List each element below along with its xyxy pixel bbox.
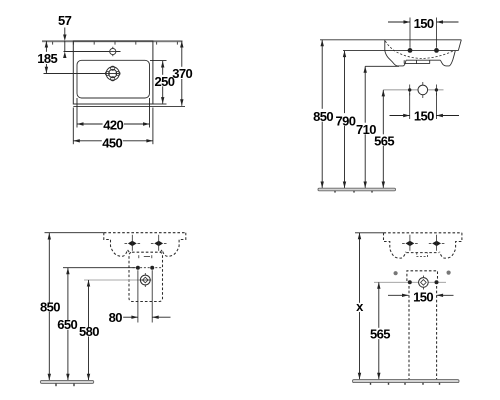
- svg-text:420: 420: [103, 118, 123, 133]
- svg-text:850: 850: [40, 299, 60, 314]
- basin underside silhouette right: [440, 51, 455, 66]
- dimension 250: [150, 59, 167, 61]
- svg-text:57: 57: [58, 13, 72, 28]
- svg-text:790: 790: [335, 113, 355, 128]
- overflow marks inside box: [138, 255, 140, 258]
- dimension 650: [67, 268, 69, 381]
- wall bolt left (rear): [128, 241, 137, 246]
- wall bolt left (pedestal view): [406, 241, 415, 246]
- floor line (front view): [318, 188, 396, 191]
- pedestal sides (dashed): [408, 286, 410, 379]
- silhouette right (pedestal view, dashed): [440, 233, 462, 258]
- dimension 80: [123, 316, 138, 318]
- fixing hole left (pedestal view): [408, 280, 412, 284]
- 650 extension line: [63, 267, 136, 269]
- floor line (pedestal view): [353, 380, 460, 383]
- dimension 850 (front): [321, 40, 323, 188]
- screw anchor left: [394, 271, 398, 275]
- basin right edge (front view): [458, 40, 461, 51]
- rear silhouette left (dashed): [104, 233, 130, 257]
- dimension 450: [72, 108, 74, 145]
- floor hatch ticks (pedestal view): [371, 383, 440, 385]
- svg-text:x: x: [356, 299, 364, 314]
- extension lines for 80 dim: [137, 270, 139, 322]
- dimension 565 (pedestal view): [378, 282, 380, 379]
- svg-text:580: 580: [79, 324, 99, 339]
- dimension 370: [153, 103, 167, 105]
- svg-text:150: 150: [414, 109, 434, 124]
- fixing screw left (front): [409, 85, 411, 96]
- rear silhouette right (dashed): [160, 233, 186, 257]
- drain centre line (pedestal view): [374, 281, 446, 283]
- fixing hole dashed centreline (rear): [133, 267, 163, 269]
- dimension x: [359, 233, 361, 379]
- mounting hole right (front): [434, 48, 439, 53]
- dimension 420: [76, 98, 78, 128]
- floor hatch ticks (rear view): [56, 383, 74, 386]
- basin top edge (pedestal view, dashed): [355, 232, 384, 234]
- screw anchor right: [447, 271, 451, 275]
- tap hole symbol (plan): [44, 73, 107, 75]
- svg-text:370: 370: [172, 66, 192, 81]
- tap hole centre line: [383, 89, 443, 91]
- basin outer outline (plan): [73, 41, 153, 104]
- hidden bowl edge (dashed): [385, 41, 453, 58]
- dimension 850 (rear): [48, 233, 50, 380]
- pedestal top box (dashed): [407, 271, 438, 281]
- basin front edge line: [73, 105, 185, 107]
- extension lines to top 150 dim: [409, 18, 411, 48]
- rim top line (front view): [320, 39, 461, 41]
- tap hole symbol (front): [422, 82, 424, 98]
- fixing hole symbol (plan): [64, 51, 121, 53]
- svg-text:850: 850: [313, 109, 333, 124]
- dimension 790: [344, 51, 346, 188]
- wall bolt right (pedestal view): [432, 241, 441, 246]
- wall hatch ticks: [53, 42, 178, 45]
- svg-text:565: 565: [370, 327, 390, 342]
- dimension 710: [364, 66, 366, 188]
- svg-text:185: 185: [37, 51, 57, 66]
- basin top edge (rear, dashed): [45, 232, 104, 234]
- dimension 185: [45, 41, 47, 73]
- svg-text:150: 150: [413, 289, 433, 304]
- silhouette left (pedestal view, dashed): [384, 233, 406, 258]
- fixing hole right (pedestal view): [435, 280, 439, 284]
- basin underside silhouette left: [385, 51, 406, 66]
- extension lines to mid 150 dim: [409, 93, 411, 119]
- dimension 150 (top): [388, 21, 410, 23]
- dimension 580: [88, 280, 90, 380]
- drain symbol (pedestal view): [422, 276, 424, 290]
- svg-text:450: 450: [102, 135, 122, 150]
- fixing hole left (rear): [136, 266, 140, 270]
- dimension 565 (front): [382, 90, 384, 188]
- basin left edge (front view): [384, 40, 386, 51]
- rear channel box (dashed): [129, 252, 163, 301]
- fixing hole right (rear): [150, 266, 154, 270]
- svg-text:150: 150: [414, 16, 434, 31]
- mounting hole left (front): [408, 48, 413, 53]
- underside mid line (dashed): [406, 252, 439, 254]
- basin bowl (inner rounded rect): [77, 60, 150, 98]
- svg-text:80: 80: [109, 310, 123, 325]
- wall bolt right (rear): [154, 241, 163, 246]
- floor hatch ticks (front view): [335, 191, 372, 193]
- trap notch (dashed): [417, 253, 428, 257]
- svg-text:565: 565: [374, 134, 394, 149]
- floor line (rear view): [40, 380, 93, 383]
- svg-text:650: 650: [57, 317, 77, 332]
- fixing screw right (front): [435, 85, 437, 96]
- drain symbol (rear): [84, 279, 140, 281]
- dimension 150 (pedestal view): [388, 294, 409, 296]
- wall line (top view): [42, 40, 183, 42]
- dimension 150 (mid): [390, 115, 410, 117]
- rim bottom line (front view): [343, 50, 458, 52]
- basin underside mid bar: [406, 59, 440, 61]
